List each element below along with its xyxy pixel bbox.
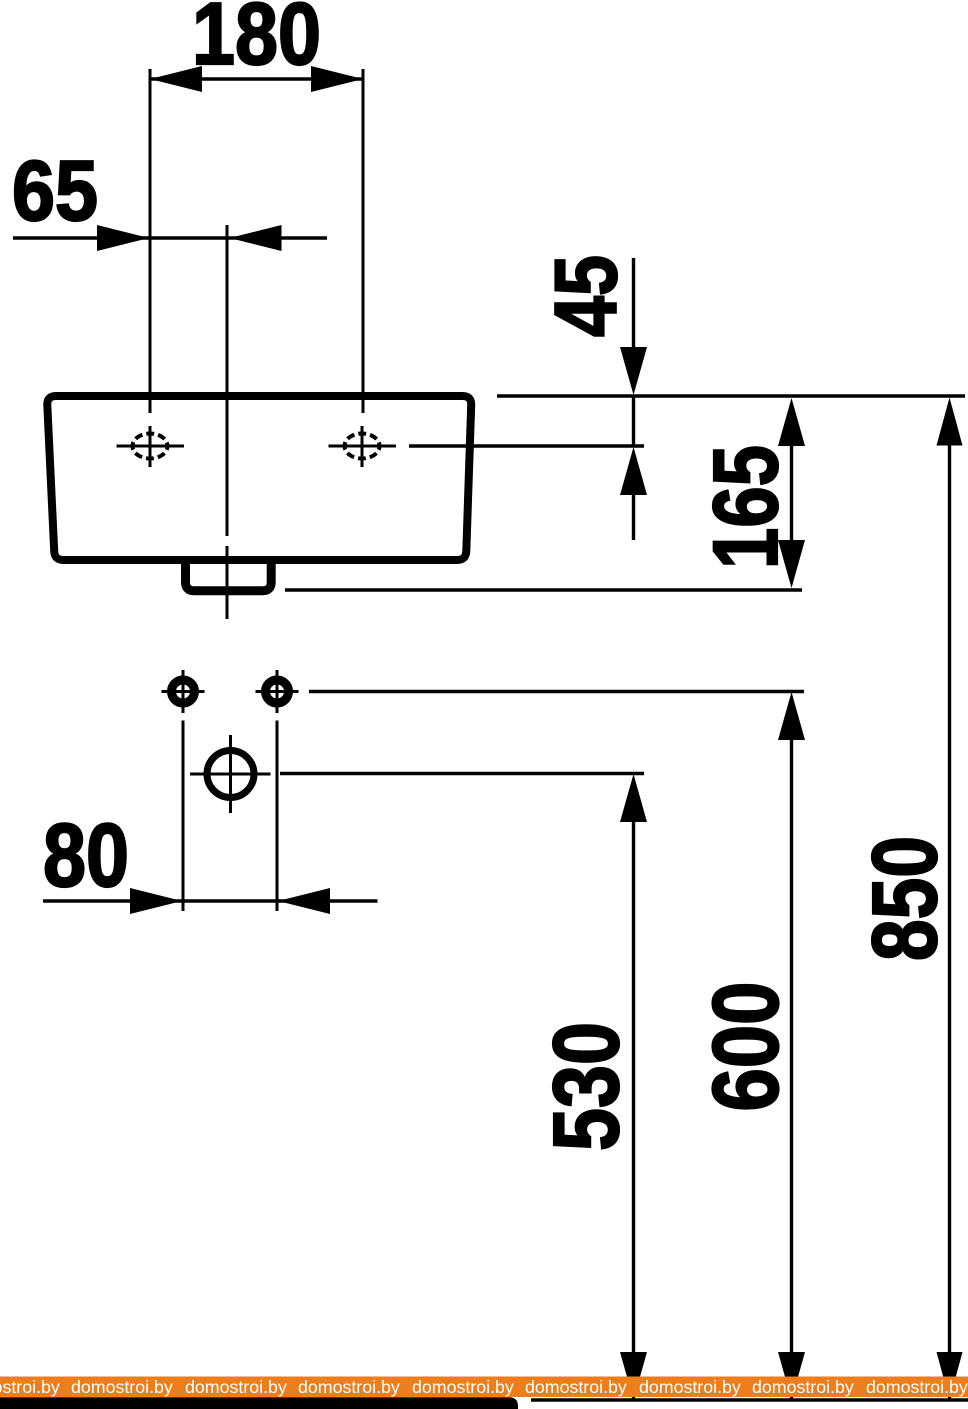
dim line 65 <box>13 236 327 239</box>
faucet hole left vertical centerline <box>149 426 152 467</box>
dim line 80 <box>43 899 378 902</box>
arrowhead 65 left-pointing <box>230 225 282 251</box>
svg-text:80: 80 <box>43 806 129 906</box>
extension line below left mounting hole <box>182 721 185 912</box>
svg-text:domostroi.by: domostroi.by <box>525 1377 627 1397</box>
dim 45 connecting segment <box>632 396 635 446</box>
arrowhead 65 right-pointing <box>97 225 149 251</box>
floor reference line <box>531 1398 968 1401</box>
dim 530 top arrowhead (up) <box>620 774 647 822</box>
faucet hole left horizontal centerline <box>117 445 185 448</box>
faucet hole left dashed circle <box>133 434 168 459</box>
dim 45 lower leader line <box>632 490 635 540</box>
svg-text:domostroi.by: domostroi.by <box>639 1377 741 1397</box>
dim 45 upper arrowhead (down) <box>620 347 647 395</box>
dim 165 line <box>790 440 793 546</box>
arrowhead 180 right <box>311 66 363 92</box>
mounting hole left vertical centerline <box>182 670 185 713</box>
mounting hole left ring <box>172 680 195 703</box>
svg-text:domostroi.by: domostroi.by <box>0 1377 60 1397</box>
svg-text:domostroi.by: domostroi.by <box>412 1377 514 1397</box>
extension line below right mounting hole <box>276 721 279 912</box>
drain trap outlet <box>186 560 272 591</box>
basin outline <box>47 396 471 560</box>
top reference line (basin rim level) <box>497 394 965 397</box>
dim 530 bottom arrowhead (down) <box>620 1352 647 1400</box>
arrowhead 180 left <box>150 66 202 92</box>
svg-text:domostroi.by: domostroi.by <box>752 1377 854 1397</box>
svg-text:domostroi.by: domostroi.by <box>71 1377 173 1397</box>
dim 600 top arrowhead (up) <box>778 692 805 740</box>
mounting hole right ring <box>266 680 289 703</box>
dim 165 top arrowhead (up) <box>778 398 805 446</box>
svg-text:65: 65 <box>12 144 98 239</box>
extension line left faucet hole x=150 <box>149 69 152 413</box>
dim 45 lower arrowhead (up) <box>620 447 647 495</box>
mounting hole left horizontal centerline <box>162 690 205 693</box>
svg-text:180: 180 <box>192 0 321 83</box>
arrowhead 80 right-pointing <box>130 888 182 914</box>
svg-text:850: 850 <box>854 836 956 961</box>
svg-text:45: 45 <box>536 255 635 337</box>
dim 600 line <box>790 736 793 1400</box>
faucet hole right dashed circle <box>345 434 380 459</box>
dim 45 upper leader line <box>632 258 635 350</box>
basin bottom reference line <box>285 588 802 591</box>
svg-text:domostroi.by: domostroi.by <box>185 1377 287 1397</box>
dim 850 line <box>948 441 951 1400</box>
drain level reference line <box>280 772 644 775</box>
mounting hole right vertical centerline <box>276 670 279 713</box>
dim 165 bottom arrowhead (down) <box>778 540 805 588</box>
faucet hole right horizontal centerline <box>329 445 397 448</box>
svg-text:domostroi.by: domostroi.by <box>298 1377 400 1397</box>
drain pipe circle <box>207 751 254 798</box>
dim 530 line <box>632 818 635 1400</box>
watermark text row <box>0 1377 968 1397</box>
dim line 180 <box>150 77 363 80</box>
extension line right faucet hole x=363 <box>362 69 365 413</box>
drain pipe vertical centerline <box>229 735 232 813</box>
drain center line lower segment <box>226 546 229 619</box>
svg-text:domostroi.by: domostroi.by <box>866 1377 968 1397</box>
drain center line upper segment <box>226 225 229 536</box>
faucet hole right vertical centerline <box>361 426 364 467</box>
faucet hole level reference line <box>409 444 644 447</box>
drain pipe horizontal centerline <box>190 773 271 776</box>
dim 850 bottom arrowhead (down) <box>937 1352 963 1400</box>
arrowhead 80 left-pointing <box>278 888 330 914</box>
dim 600 bottom arrowhead (down) <box>778 1352 805 1400</box>
mounting hole right horizontal centerline <box>256 690 299 693</box>
dim 850 top arrowhead (up) <box>937 398 963 446</box>
svg-text:530: 530 <box>534 1022 638 1151</box>
thick floor bar bottom-left <box>0 1397 518 1409</box>
watermark orange bar <box>0 1377 968 1398</box>
svg-text:600: 600 <box>694 982 798 1112</box>
mounting hole level reference line <box>309 690 804 693</box>
